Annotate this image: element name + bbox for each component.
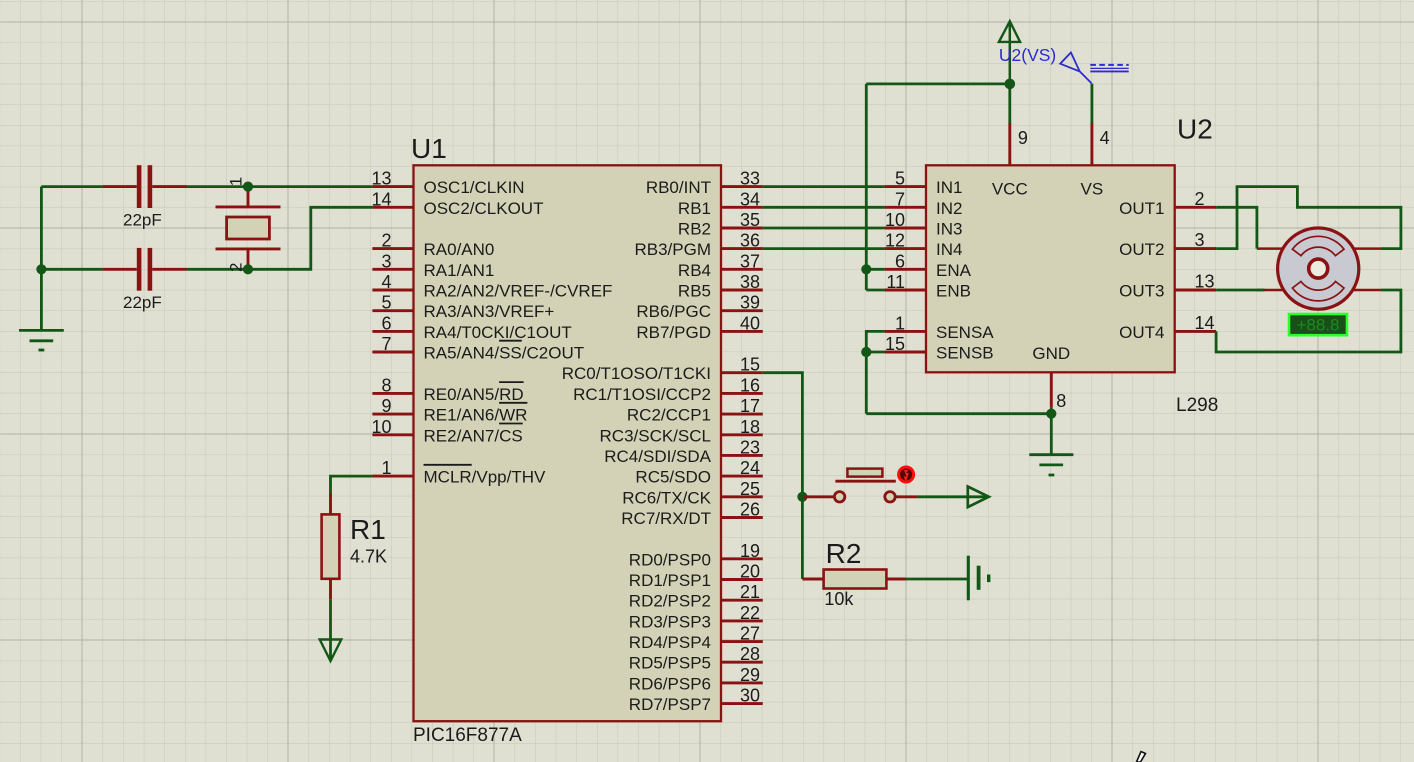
- junction: crystal node 1: [243, 182, 253, 192]
- svg-text:19: 19: [740, 541, 760, 561]
- wire: R1 to ground arrow: [329, 599, 332, 659]
- U1 pin 40 (RB7/PGD): [636, 313, 762, 342]
- svg-text:15: 15: [885, 334, 905, 354]
- svg-text:MCLR/Vpp/THV: MCLR/Vpp/THV: [424, 468, 547, 487]
- battery cell symbol: [968, 556, 990, 601]
- svg-text:IN2: IN2: [936, 199, 962, 218]
- wire: RB3-IN4: [763, 247, 885, 250]
- svg-text:GND: GND: [1032, 344, 1070, 363]
- svg-text:IN1: IN1: [936, 178, 962, 197]
- U2 pin 13 (OUT3): [1119, 272, 1216, 301]
- ground symbol (under U2): [1029, 455, 1073, 475]
- svg-text:11: 11: [886, 272, 905, 292]
- U1 pin 34 (RB1): [678, 189, 763, 218]
- power symbol (VCC arrow): [999, 21, 1020, 84]
- U1 pin 22 (RD3/PSP3): [629, 603, 763, 632]
- svg-text:VCC: VCC: [992, 180, 1028, 199]
- svg-text:26: 26: [740, 500, 760, 520]
- U2 pin 4 (VS) top: [1081, 123, 1110, 199]
- junction: ground rail / C2: [36, 264, 46, 274]
- svg-text:R1: R1: [350, 514, 386, 545]
- U1 pin 4 (RA2/AN2/VREF-/CVREF): [372, 272, 612, 301]
- voltage probe U2(VS) (blue): [1060, 53, 1129, 84]
- IC U2 body (L298): [926, 165, 1175, 372]
- junction: button branch: [797, 492, 807, 502]
- svg-text:24: 24: [740, 458, 760, 478]
- svg-text:RC4/SDI/SDA: RC4/SDI/SDA: [604, 447, 711, 466]
- svg-text:OUT1: OUT1: [1119, 199, 1164, 218]
- svg-text:10: 10: [371, 417, 391, 437]
- U1 pin 13 (OSC1/CLKIN): [371, 169, 524, 198]
- svg-text:9: 9: [1018, 128, 1028, 148]
- push button SW1: [804, 469, 917, 502]
- U1 pin 17 (RC2/CCP1): [627, 396, 763, 425]
- svg-text:21: 21: [740, 582, 760, 602]
- svg-text:U1: U1: [411, 133, 447, 164]
- svg-text:OUT4: OUT4: [1119, 323, 1164, 342]
- svg-text:OUT2: OUT2: [1119, 240, 1164, 259]
- svg-text:23: 23: [740, 437, 760, 457]
- svg-text:RB3/PGM: RB3/PGM: [634, 240, 711, 259]
- svg-text:6: 6: [895, 251, 905, 271]
- svg-text:R2: R2: [826, 538, 862, 569]
- svg-text:18: 18: [740, 417, 760, 437]
- U2 pin 3 (OUT2): [1119, 230, 1216, 259]
- svg-text:39: 39: [740, 293, 760, 313]
- svg-text:SENSA: SENSA: [936, 323, 994, 342]
- svg-text:RB1: RB1: [678, 199, 711, 218]
- svg-text:25: 25: [740, 479, 760, 499]
- cursor (pencil): [1137, 752, 1146, 762]
- U1 pin 1 (MCLR/Vpp/THV): [372, 458, 546, 487]
- svg-text:RD1/PSP1: RD1/PSP1: [629, 571, 711, 590]
- U1 pin 20 (RD1/PSP1): [629, 562, 763, 591]
- svg-text:7: 7: [895, 189, 905, 209]
- U1 pin 18 (RC3/SCK/SCL): [600, 417, 763, 446]
- svg-text:RA4/T0CKI/C1OUT: RA4/T0CKI/C1OUT: [424, 323, 572, 342]
- svg-text:OSC2/CLKOUT: OSC2/CLKOUT: [424, 199, 544, 218]
- svg-text:ENB: ENB: [936, 282, 971, 301]
- svg-text:22pF: 22pF: [123, 293, 162, 312]
- svg-text:35: 35: [740, 210, 760, 230]
- U1 pin 10 (RE2/AN7/CS): [371, 417, 522, 446]
- svg-text:RB0/INT: RB0/INT: [646, 178, 711, 197]
- U2 pin 14 (OUT4): [1119, 313, 1216, 342]
- U1 pin 30 (RD7/PSP7): [629, 686, 763, 715]
- svg-text:2: 2: [381, 231, 391, 251]
- svg-text:3: 3: [381, 251, 391, 271]
- U1 pin 23 (RC4/SDI/SDA): [604, 437, 763, 466]
- U1 pin 6 (RA4/T0CKI/C1OUT): [372, 313, 571, 342]
- svg-text:8: 8: [1056, 391, 1066, 411]
- U1 pin 28 (RD5/PSP5): [629, 644, 763, 673]
- U1 pin 33 (RB0/INT): [646, 169, 763, 198]
- svg-text:30: 30: [740, 686, 760, 706]
- wire: C1 left lead to ground rail: [41, 185, 102, 188]
- U1 pin 37 (RB4): [678, 251, 763, 280]
- wire: RB0-IN1: [763, 185, 885, 188]
- wire: R2 to battery: [906, 578, 968, 581]
- motor terminal line upper: [1257, 247, 1381, 250]
- svg-text:SENSB: SENSB: [936, 344, 994, 363]
- wire: VS pin 4 vertical: [1091, 84, 1094, 124]
- svg-text:34: 34: [740, 189, 760, 209]
- junction: ENA branch: [861, 264, 871, 274]
- U1 pin 39 (RB6/PGC): [636, 293, 762, 322]
- terminal arrow symbol: [968, 487, 989, 508]
- U1 pin 35 (RB2): [678, 210, 763, 239]
- junction: SENSB branch: [861, 347, 871, 357]
- U1 pin 8 (RE0/AN5/RD): [372, 375, 523, 404]
- svg-text:RE1/AN6/WR: RE1/AN6/WR: [424, 406, 528, 425]
- resistor R2 10k: [802, 570, 905, 589]
- U1 pin 24 (RC5/SDO): [635, 458, 762, 487]
- svg-text:RA2/AN2/VREF-/CVREF: RA2/AN2/VREF-/CVREF: [424, 282, 613, 301]
- svg-text:IN3: IN3: [936, 220, 962, 239]
- IC U1 body (PIC16F877A): [414, 165, 722, 721]
- motor commutator arc lower: [1292, 282, 1344, 301]
- svg-text:OSC1/CLKIN: OSC1/CLKIN: [424, 178, 525, 197]
- svg-text:RD4/PSP4: RD4/PSP4: [629, 633, 711, 652]
- svg-text:+88.8: +88.8: [1296, 316, 1339, 335]
- U1 pin 15 (RC0/T1OSO/T1CKI): [562, 355, 763, 384]
- svg-text:14: 14: [1195, 313, 1215, 333]
- junction: GND node: [1046, 409, 1056, 419]
- svg-text:RE0/AN5/RD: RE0/AN5/RD: [424, 385, 524, 404]
- U2 pin 6 (ENA): [885, 251, 972, 280]
- svg-text:RB6/PGC: RB6/PGC: [636, 302, 711, 321]
- U1 pin 25 (RC6/TX/CK): [622, 479, 763, 508]
- U1 pin 29 (RD6/PSP6): [629, 665, 763, 694]
- svg-text:2: 2: [1195, 189, 1205, 209]
- capacitor C1 22pF: [103, 165, 187, 208]
- svg-text:33: 33: [740, 169, 760, 189]
- svg-text:RC2/CCP1: RC2/CCP1: [627, 406, 711, 425]
- svg-text:1: 1: [381, 458, 391, 478]
- crystal X1: [216, 187, 281, 270]
- resistor R1 4.7K: [322, 494, 340, 600]
- svg-text:13: 13: [371, 169, 391, 189]
- wire: branch to ENA: [866, 268, 884, 271]
- svg-text:22: 22: [740, 603, 760, 623]
- svg-text:RC1/T1OSI/CCP2: RC1/T1OSI/CCP2: [573, 385, 711, 404]
- U1 pin 19 (RD0/PSP0): [629, 541, 763, 570]
- wire: C2 to crystal node 2: [187, 268, 248, 271]
- svg-text:4.7K: 4.7K: [350, 547, 387, 567]
- svg-text:7: 7: [381, 334, 391, 354]
- svg-text:20: 20: [740, 562, 760, 582]
- svg-text:ENA: ENA: [936, 261, 972, 280]
- svg-text:RD3/PSP3: RD3/PSP3: [629, 612, 711, 631]
- U1 pin 27 (RD4/PSP4): [629, 624, 763, 653]
- motor speed display +88.8: [1289, 314, 1347, 335]
- wire: branch to SENSB: [866, 351, 884, 354]
- svg-text:RA0/AN0: RA0/AN0: [424, 240, 495, 259]
- wire: OUT3 to motor terminal lower-left: [1216, 289, 1264, 292]
- svg-text:RD5/PSP5: RD5/PSP5: [629, 654, 711, 673]
- junction: VCC rail / pin 9: [1005, 79, 1016, 90]
- svg-text:RC5/SDO: RC5/SDO: [635, 468, 711, 487]
- U2 pin 9 (VCC) top: [992, 123, 1028, 199]
- U1 pin 38 (RB5): [678, 272, 763, 301]
- U2 pin 15 (SENSB): [885, 334, 994, 363]
- svg-text:27: 27: [740, 624, 760, 644]
- junction: crystal node 2: [243, 264, 253, 274]
- svg-text:37: 37: [740, 251, 760, 271]
- wire: OUT1 to motor terminal upper-left: [1216, 207, 1257, 248]
- svg-text:RA5/AN4/SS/C2OUT: RA5/AN4/SS/C2OUT: [424, 344, 585, 363]
- svg-text:RA1/AN1: RA1/AN1: [424, 261, 495, 280]
- svg-text:RC7/RX/DT: RC7/RX/DT: [621, 509, 711, 528]
- button actuator marker (red): [897, 466, 915, 484]
- wire: U1 pin 1 (MCLR) to R1: [331, 476, 373, 493]
- svg-text:28: 28: [740, 644, 760, 664]
- svg-text:RB2: RB2: [678, 220, 711, 239]
- U2 pin 11 (ENB): [885, 272, 971, 301]
- svg-text:OUT3: OUT3: [1119, 282, 1164, 301]
- wire: C2 left lead from ground rail: [41, 268, 102, 271]
- svg-text:8: 8: [381, 375, 391, 395]
- svg-text:1: 1: [895, 313, 905, 333]
- svg-text:RD0/PSP0: RD0/PSP0: [629, 550, 711, 569]
- U2 pin 2 (OUT1): [1119, 189, 1216, 218]
- U1 pin 5 (RA3/AN3/VREF+): [372, 293, 554, 322]
- capacitor C2 22pF: [103, 248, 187, 291]
- svg-text:IN4: IN4: [936, 240, 962, 259]
- svg-text:RC0/T1OSO/T1CKI: RC0/T1OSO/T1CKI: [562, 364, 711, 383]
- U1 pin 9 (RE1/AN6/WR): [372, 396, 527, 425]
- wire: left ground rail vertical: [40, 187, 43, 331]
- U2 pin 1 (SENSA): [885, 313, 995, 342]
- svg-text:U2: U2: [1177, 114, 1213, 145]
- svg-text:RD6/PSP6: RD6/PSP6: [629, 674, 711, 693]
- svg-text:RD7/PSP7: RD7/PSP7: [629, 695, 711, 714]
- svg-text:U2(VS): U2(VS): [999, 45, 1056, 65]
- svg-text:3: 3: [1195, 230, 1205, 250]
- U2 pin 12 (IN4): [885, 231, 963, 260]
- svg-text:40: 40: [740, 313, 760, 333]
- svg-text:RD2/PSP2: RD2/PSP2: [629, 592, 711, 611]
- wire: VCC rail horizontal: [866, 83, 1010, 86]
- svg-text:10: 10: [885, 210, 905, 230]
- svg-text:22pF: 22pF: [123, 211, 162, 230]
- svg-text:2: 2: [227, 263, 246, 272]
- wire: button to terminal arrow: [917, 495, 988, 498]
- wire: SENS net to GND node: [866, 412, 1051, 415]
- ground symbol (left): [19, 330, 64, 350]
- wire: SENSA to vertical: [866, 331, 884, 413]
- motor commutator arc upper: [1292, 236, 1344, 255]
- wire: RB2-IN3: [763, 227, 885, 230]
- svg-text:36: 36: [740, 231, 760, 251]
- svg-text:13: 13: [1195, 272, 1215, 292]
- wire: GND node down to ground: [1050, 408, 1053, 455]
- wire: motor terminal lower-right loop to OUT4: [1216, 290, 1401, 352]
- wire: RC0 to button/R2 vertical: [763, 373, 803, 579]
- U1 pin 26 (RC7/RX/DT): [621, 500, 763, 529]
- svg-text:12: 12: [885, 231, 905, 251]
- U1 pin 3 (RA1/AN1): [372, 251, 494, 280]
- svg-text:29: 29: [740, 665, 760, 685]
- U2 pin 5 (IN1): [885, 169, 963, 198]
- svg-text:RC3/SCK/SCL: RC3/SCK/SCL: [600, 426, 711, 445]
- svg-text:VS: VS: [1081, 180, 1104, 199]
- wire: branch to ENB: [866, 289, 884, 292]
- wire: crystal node 2 to U1 pin 14 (OSC2): [248, 207, 372, 269]
- svg-text:4: 4: [381, 272, 391, 292]
- wire: OUT2 over-route to motor terminal upper-right: [1216, 187, 1401, 249]
- ground arrow symbol below R1: [320, 640, 342, 662]
- svg-text:RB4: RB4: [678, 261, 711, 280]
- svg-text:10k: 10k: [824, 589, 854, 609]
- svg-text:14: 14: [371, 189, 391, 209]
- svg-text:5: 5: [381, 293, 391, 313]
- svg-text:15: 15: [740, 355, 760, 375]
- U2 pin 8 (GND) bottom: [1032, 344, 1070, 411]
- svg-text:1: 1: [227, 177, 246, 186]
- svg-text:RB5: RB5: [678, 282, 711, 301]
- svg-text:PIC16F877A: PIC16F877A: [413, 725, 522, 746]
- svg-text:RB7/PGD: RB7/PGD: [636, 323, 711, 342]
- motor M1 body: [1278, 228, 1359, 309]
- svg-text:6: 6: [381, 313, 391, 333]
- U1 pin 2 (RA0/AN0): [372, 231, 494, 260]
- svg-text:RE2/AN7/CS: RE2/AN7/CS: [424, 426, 523, 445]
- svg-text:38: 38: [740, 272, 760, 292]
- U2 pin 7 (IN2): [885, 189, 963, 218]
- wire: RB1-IN2: [763, 206, 885, 209]
- U1 pin 7 (RA5/AN4/SS/C2OUT): [372, 334, 584, 363]
- svg-text:L298: L298: [1176, 395, 1218, 416]
- U1 pin 21 (RD2/PSP2): [629, 582, 763, 611]
- svg-text:17: 17: [740, 396, 760, 416]
- wire: VCC rail down to U2 pin 9: [1008, 84, 1011, 124]
- svg-text:9: 9: [381, 396, 391, 416]
- wire: C1 to U1 pin 13 (OSC1): [187, 185, 372, 188]
- motor terminal line lower: [1257, 289, 1381, 292]
- svg-text:RC6/TX/CK: RC6/TX/CK: [622, 488, 711, 507]
- svg-text:5: 5: [895, 169, 905, 189]
- svg-text:RA3/AN3/VREF+: RA3/AN3/VREF+: [424, 302, 555, 321]
- U1 pin 14 (OSC2/CLKOUT): [371, 189, 543, 218]
- U2 pin 10 (IN3): [885, 210, 963, 239]
- svg-text:16: 16: [740, 375, 760, 395]
- U1 pin 16 (RC1/T1OSI/CCP2): [573, 375, 763, 404]
- svg-text:4: 4: [1100, 128, 1110, 148]
- U1 pin 36 (RB3/PGM): [634, 231, 762, 260]
- wire: ENA/ENB vertical from VCC rail: [865, 84, 868, 290]
